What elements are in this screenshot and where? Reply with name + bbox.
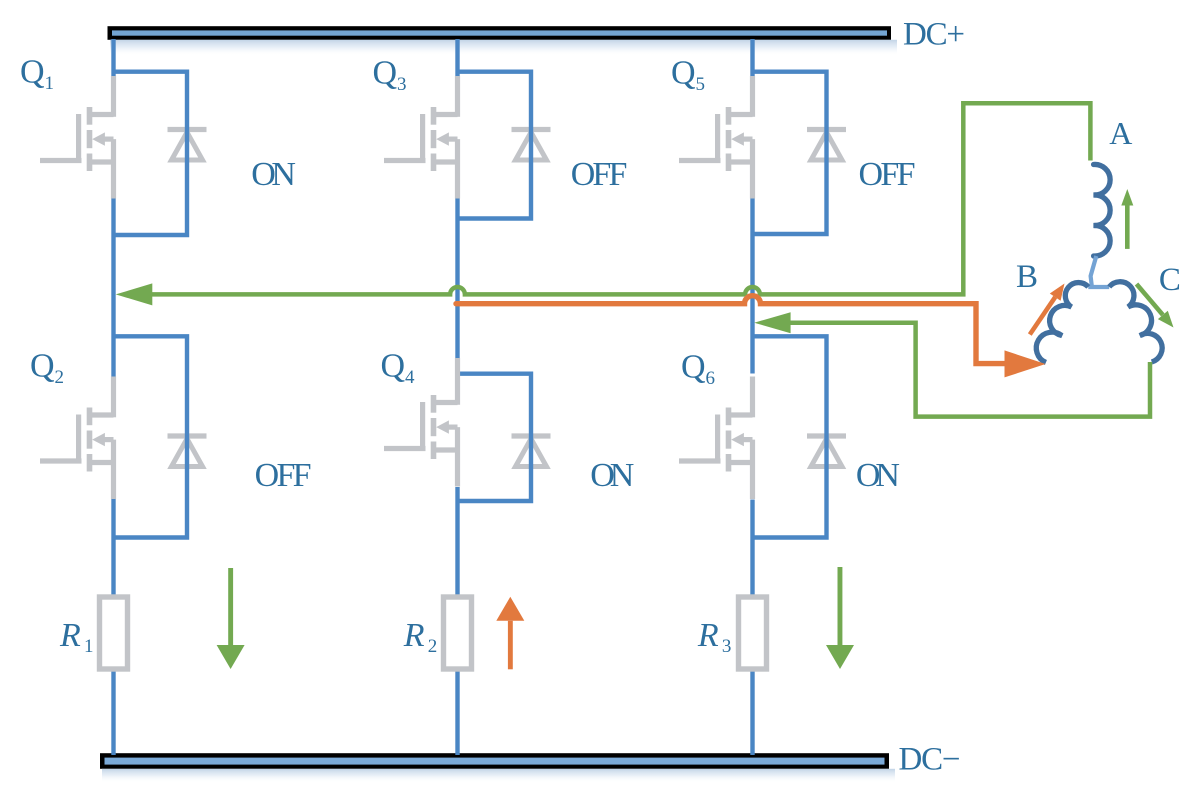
svg-text:R: R: [403, 617, 425, 654]
svg-text:OFF: OFF: [255, 457, 312, 494]
green current path A (to Q1): [151, 103, 1090, 294]
green current arrow phase A (up): [1121, 189, 1133, 249]
svg-text:4: 4: [405, 367, 415, 388]
wire Q4 source to R2: [455, 487, 459, 599]
green current arrow phase C (diagonal): [1137, 284, 1174, 328]
green arrowhead into Q6 node: [754, 312, 790, 333]
svg-text:OFF: OFF: [571, 156, 628, 193]
wire link A to star point: [1088, 256, 1109, 287]
svg-text:Q: Q: [671, 55, 696, 92]
winding C: [1109, 282, 1162, 362]
svg-text:ON: ON: [856, 457, 900, 494]
winding B: [1036, 283, 1088, 363]
svg-text:OFF: OFF: [859, 156, 916, 193]
orange current arrow R2 (up): [496, 597, 524, 670]
orange current path B (from Q4): [456, 296, 1005, 364]
svg-text:1: 1: [45, 73, 55, 94]
wire R3 to DC-: [750, 667, 754, 755]
wire Q1 diode loop: [114, 72, 188, 235]
resistor R2: [444, 597, 472, 669]
diode of Q6: [807, 436, 846, 467]
orange arrowhead into winding B: [1005, 350, 1046, 377]
diode of Q4: [512, 436, 551, 467]
transistor Q5: [679, 76, 753, 199]
svg-text:6: 6: [706, 368, 716, 389]
DC+ bus bar: [108, 26, 898, 56]
wire Q1 source to node A1: [111, 199, 115, 377]
diode of Q1: [168, 130, 207, 161]
diode of Q2: [168, 436, 207, 467]
wire R2 to DC-: [455, 667, 459, 755]
wire leg1 DC+ to Q1: [111, 39, 115, 79]
svg-text:A: A: [1109, 115, 1132, 151]
svg-text:3: 3: [397, 74, 407, 95]
wire R1 to DC-: [111, 667, 115, 755]
svg-text:DC+: DC+: [903, 17, 965, 53]
svg-text:ON: ON: [251, 156, 296, 193]
winding A: [1094, 164, 1111, 256]
diode of Q3: [512, 130, 551, 161]
svg-text:B: B: [1016, 259, 1038, 295]
wire Q6 diode loop: [753, 336, 827, 537]
diode of Q5: [807, 130, 846, 161]
svg-text:Q: Q: [20, 54, 45, 91]
transistor Q4: [384, 358, 458, 487]
orange current arrow phase B (diagonal): [1030, 284, 1065, 335]
svg-text:Q: Q: [373, 55, 398, 92]
svg-text:C: C: [1159, 262, 1181, 298]
wire leg3 DC+ to Q5: [750, 39, 754, 79]
resistor R1: [100, 597, 128, 669]
transistor Q6: [679, 377, 753, 500]
transistor Q3: [384, 76, 458, 199]
svg-text:2: 2: [55, 367, 65, 388]
svg-text:DC−: DC−: [899, 742, 961, 778]
svg-text:R: R: [59, 617, 81, 654]
green arrowhead into Q1 node: [116, 283, 153, 305]
svg-text:Q: Q: [381, 348, 406, 385]
svg-text:ON: ON: [590, 457, 634, 494]
svg-text:R: R: [697, 617, 719, 654]
svg-text:2: 2: [428, 636, 438, 657]
transistor Q2: [40, 377, 114, 500]
wire Q2 diode loop: [114, 336, 188, 537]
green current arrow R3 (down): [826, 567, 854, 669]
wire Q3 diode loop: [458, 72, 532, 219]
wire Q4 diode loop: [458, 374, 532, 501]
green current path C (from winding C to Q6): [790, 323, 1150, 417]
DC- bus bar: [100, 753, 895, 783]
wire Q3 source to node B1: [455, 199, 459, 359]
wire Q5 diode loop: [753, 72, 827, 234]
svg-text:3: 3: [722, 636, 732, 657]
wire Q2 source to R1: [111, 499, 115, 599]
svg-text:Q: Q: [30, 348, 55, 385]
svg-text:5: 5: [696, 74, 706, 95]
svg-text:Q: Q: [681, 349, 706, 386]
wire Q5 source to node C1: [750, 199, 754, 374]
resistor R3: [739, 597, 767, 669]
wire leg2 DC+ to Q3: [455, 39, 459, 81]
green current arrow R1 (down): [217, 568, 245, 669]
wire Q6 source to R3: [750, 500, 754, 600]
svg-text:1: 1: [84, 636, 94, 657]
transistor Q1: [40, 76, 114, 199]
